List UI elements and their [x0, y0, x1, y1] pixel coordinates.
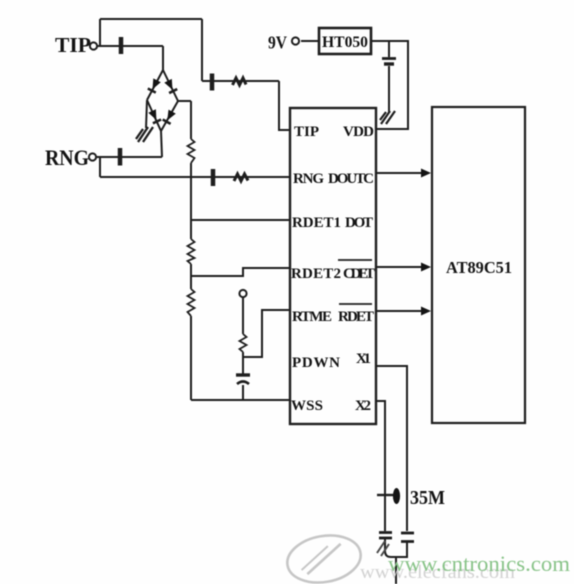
- svg-text:RNG: RNG: [293, 171, 324, 187]
- svg-text:VDD: VDD: [343, 124, 374, 140]
- wire TIP junction up: [99, 19, 101, 46]
- svg-text:9V: 9V: [268, 33, 287, 53]
- terminal circle TIP: [90, 42, 97, 49]
- wire TIP to capacitor: [97, 45, 163, 47]
- wire coupling row horizontal: [202, 80, 279, 82]
- wire HT050 to VDD: [371, 41, 408, 129]
- diode bridge D1-D4: [147, 70, 178, 131]
- svg-text:X1: X1: [356, 351, 371, 367]
- wire RNG to bridge bottom: [96, 156, 162, 158]
- ground bridge: [136, 127, 153, 142]
- svg-text:RDET: RDET: [338, 309, 374, 325]
- ground VDD: [380, 111, 395, 124]
- capacitor C2: [210, 74, 215, 91]
- wire X2 down: [376, 401, 385, 531]
- svg-text:DOUTC: DOUTC: [328, 171, 374, 187]
- wire down to TIP pin: [279, 81, 290, 130]
- resistor R1: [188, 139, 195, 163]
- svg-text:RDET1: RDET1: [292, 215, 341, 231]
- wire RNG junction down: [99, 157, 101, 177]
- svg-text:X2: X2: [355, 398, 371, 414]
- wire arrow DOUTC to MCU: [377, 169, 431, 178]
- capacitor C1: [119, 37, 124, 54]
- capacitor C7: [379, 533, 392, 539]
- terminal circle RNG: [89, 153, 96, 160]
- node RNG label: [45, 145, 89, 170]
- regulator HT050 box: [319, 28, 371, 54]
- wire X1 down: [376, 366, 407, 531]
- wire bridge top lead: [162, 46, 164, 70]
- wire bridge right: [178, 100, 191, 102]
- svg-text:RDET2: RDET2: [291, 266, 341, 282]
- svg-text:HT050: HT050: [322, 34, 368, 51]
- terminal circle RTME branch: [239, 290, 246, 297]
- svg-text:WSS: WSS: [291, 398, 323, 414]
- terminal circle 9V: [292, 37, 299, 44]
- wire WSS row: [191, 399, 290, 401]
- IC U1 HT9032 box: [290, 108, 376, 424]
- overline CDET: [338, 259, 372, 261]
- inductor L2: [234, 174, 248, 181]
- node TIP label: [55, 33, 91, 57]
- capacitor C6: [382, 59, 396, 65]
- svg-text:RNG: RNG: [45, 145, 89, 170]
- watermark logo ellipse: [284, 530, 365, 584]
- resistor R4: [240, 334, 247, 352]
- svg-text:www.cntronics.com: www.cntronics.com: [388, 551, 570, 576]
- ground slashes bottom: [377, 541, 389, 556]
- IC left pin labels: [291, 124, 341, 414]
- svg-text:35M: 35M: [410, 487, 445, 509]
- node 9V label: [268, 33, 287, 53]
- capacitor C3: [118, 148, 123, 166]
- wire bridge bottom to RNG line: [161, 131, 162, 157]
- svg-text:TIP: TIP: [294, 124, 319, 140]
- svg-text:DOT: DOT: [345, 215, 373, 231]
- wire RDET1 row: [191, 219, 290, 221]
- wire bridge left to ground: [146, 100, 147, 128]
- label 35M: [410, 487, 445, 509]
- capacitor C4: [211, 169, 216, 186]
- wire 9V to HT050: [301, 40, 319, 42]
- wire jog to RTME pin: [243, 310, 290, 357]
- svg-text:RTME: RTME: [292, 309, 332, 325]
- inductor L1: [233, 78, 247, 85]
- overline RDET: [339, 303, 372, 305]
- resistor R3: [188, 289, 195, 316]
- wire C5 to WSS row: [242, 385, 244, 400]
- svg-text:TIP: TIP: [55, 33, 91, 57]
- MCU AT89C51 box: [432, 107, 525, 423]
- crystal Y1: [377, 488, 400, 504]
- capacitor C8: [401, 533, 414, 542]
- wire RTME branch down: [242, 297, 244, 374]
- wire RNG row to IC: [100, 176, 290, 178]
- svg-text:AT89C51: AT89C51: [446, 258, 512, 277]
- wire top horizontal: [100, 18, 202, 20]
- wire arrow RDET to MCU: [377, 307, 431, 316]
- wire VDD cap branch: [388, 41, 390, 112]
- wire arrow CDET to MCU: [377, 263, 431, 272]
- wire ground tail: [395, 557, 397, 584]
- wire right branch vertical: [190, 101, 192, 400]
- resistor R2: [188, 239, 195, 264]
- wire load caps common: [385, 538, 407, 557]
- capacitor C5: [236, 375, 250, 384]
- svg-text:PDWN: PDWN: [292, 355, 340, 371]
- wire down to coupling row: [201, 19, 203, 81]
- svg-text:CDET: CDET: [343, 266, 375, 282]
- IC right pin labels: [328, 124, 375, 414]
- wire RDET2 row jog: [191, 268, 290, 276]
